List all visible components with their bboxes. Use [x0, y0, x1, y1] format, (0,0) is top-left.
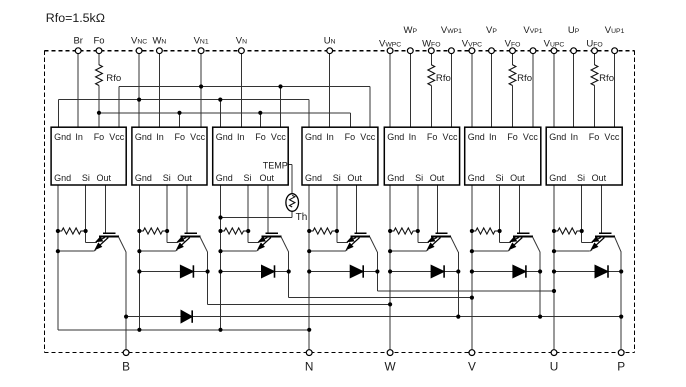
svg-text:TEMP: TEMP: [263, 161, 288, 171]
svg-text:In: In: [75, 132, 83, 142]
svg-text:Fo: Fo: [93, 36, 104, 47]
svg-text:Si: Si: [163, 173, 171, 183]
svg-text:In: In: [489, 132, 497, 142]
svg-text:In: In: [237, 132, 245, 142]
svg-text:N: N: [305, 360, 314, 374]
svg-text:Gnd: Gnd: [387, 173, 404, 183]
svg-text:V: V: [468, 360, 476, 374]
svg-text:Fo: Fo: [427, 132, 438, 142]
svg-text:Gnd: Gnd: [135, 132, 152, 142]
svg-text:Fo: Fo: [255, 132, 266, 142]
svg-text:Rfo: Rfo: [106, 73, 121, 84]
svg-text:Out: Out: [177, 173, 192, 183]
svg-text:Vcc: Vcc: [523, 132, 539, 142]
svg-text:P: P: [617, 360, 625, 374]
svg-text:Fo: Fo: [507, 132, 518, 142]
svg-text:Out: Out: [592, 173, 607, 183]
svg-text:Si: Si: [82, 173, 90, 183]
svg-text:Fo: Fo: [94, 132, 105, 142]
svg-text:In: In: [571, 132, 579, 142]
svg-text:Out: Out: [430, 173, 445, 183]
svg-text:Vcc: Vcc: [190, 132, 206, 142]
svg-text:Vcc: Vcc: [109, 132, 125, 142]
svg-text:Rfo: Rfo: [517, 73, 532, 84]
svg-text:Gnd: Gnd: [387, 132, 404, 142]
svg-text:Vcc: Vcc: [360, 132, 376, 142]
svg-text:Gnd: Gnd: [305, 132, 322, 142]
svg-text:Fo: Fo: [589, 132, 600, 142]
svg-text:Si: Si: [415, 173, 423, 183]
svg-text:Gnd: Gnd: [135, 173, 152, 183]
svg-text:In: In: [326, 132, 334, 142]
svg-text:Gnd: Gnd: [468, 132, 485, 142]
svg-text:U: U: [550, 360, 559, 374]
svg-text:Gnd: Gnd: [549, 173, 566, 183]
svg-text:Br: Br: [73, 36, 83, 47]
svg-text:Out: Out: [347, 173, 362, 183]
svg-text:Th: Th: [296, 212, 308, 223]
svg-text:Gnd: Gnd: [549, 132, 566, 142]
svg-text:Si: Si: [496, 173, 504, 183]
svg-text:Fo: Fo: [175, 132, 186, 142]
svg-text:Si: Si: [244, 173, 252, 183]
svg-text:Gnd: Gnd: [468, 173, 485, 183]
svg-text:Gnd: Gnd: [54, 132, 71, 142]
svg-text:Out: Out: [97, 173, 112, 183]
svg-text:W: W: [385, 360, 397, 374]
svg-text:Rfo: Rfo: [436, 73, 451, 84]
svg-text:Vcc: Vcc: [443, 132, 459, 142]
svg-text:Rfo: Rfo: [599, 73, 614, 84]
svg-text:Fo: Fo: [345, 132, 356, 142]
svg-text:Vcc: Vcc: [604, 132, 620, 142]
svg-text:Si: Si: [577, 173, 585, 183]
svg-text:Gnd: Gnd: [54, 173, 71, 183]
svg-text:Gnd: Gnd: [216, 132, 233, 142]
svg-text:In: In: [409, 132, 417, 142]
svg-text:Out: Out: [510, 173, 525, 183]
svg-text:In: In: [156, 132, 164, 142]
svg-text:Gnd: Gnd: [305, 173, 322, 183]
svg-text:Si: Si: [333, 173, 341, 183]
svg-text:Vcc: Vcc: [271, 132, 287, 142]
svg-text:B: B: [122, 360, 130, 374]
svg-text:Gnd: Gnd: [216, 173, 233, 183]
svg-text:Rfo=1.5kΩ: Rfo=1.5kΩ: [46, 11, 105, 25]
svg-text:Out: Out: [260, 173, 275, 183]
